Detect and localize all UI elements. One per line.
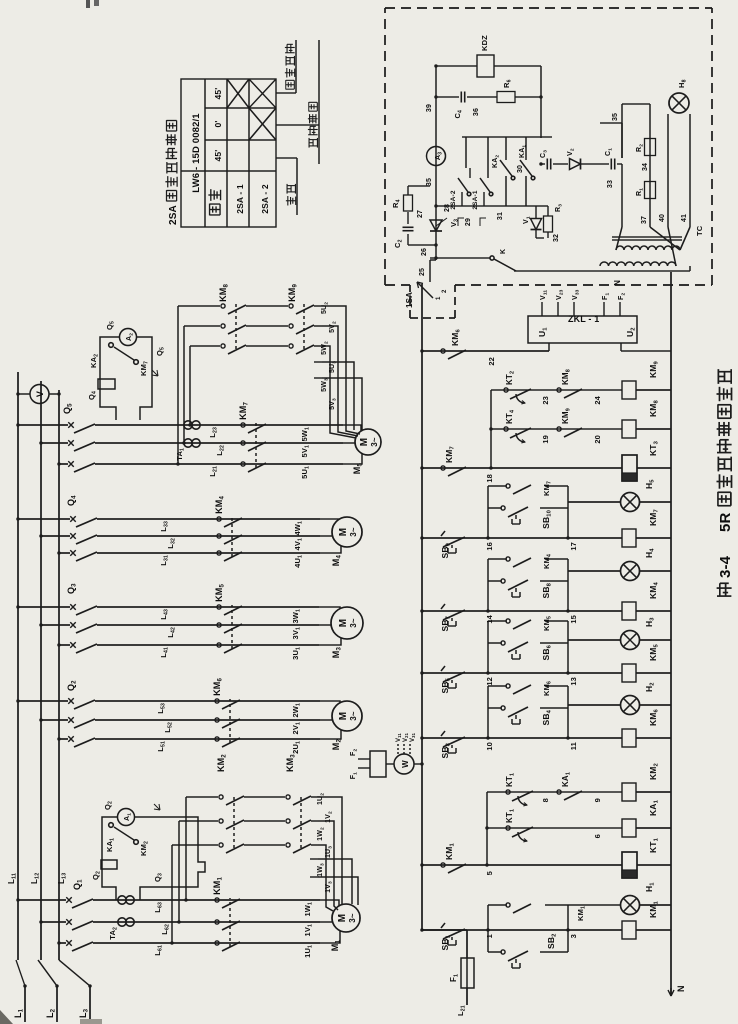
svg-text:35: 35 <box>612 113 619 121</box>
ZKL terminals V11 V23 V33 F1 F2 <box>541 302 543 316</box>
contactor KM2 pole <box>219 795 244 805</box>
dashed notch for 1SA entry <box>409 285 411 318</box>
svg-text:LW6 - 15D 0082/1: LW6 - 15D 0082/1 <box>191 113 202 193</box>
wiring nest M5 speed to motor <box>322 346 356 438</box>
speed drop 2 M1 <box>179 820 218 822</box>
svg-text:KDZ: KDZ <box>480 35 489 51</box>
branch to KM8/KM9 rungs <box>490 390 492 468</box>
bottom rail N of control circuit <box>670 272 672 996</box>
svg-text:2SA - 2: 2SA - 2 <box>260 184 270 214</box>
svg-text:3-4: 3-4 <box>717 555 734 578</box>
coil KM6 <box>622 729 636 747</box>
svg-text:30: 30 <box>517 165 524 173</box>
timer coil KT1 <box>622 852 637 878</box>
svg-text:2SA-2: 2SA-2 <box>450 190 457 209</box>
wire to motor W <box>320 701 340 704</box>
contactor KM3 pole <box>286 795 311 805</box>
svg-text:M: M <box>338 712 349 720</box>
svg-text:31: 31 <box>497 212 504 220</box>
bus L13 <box>58 390 60 960</box>
svg-text:20: 20 <box>593 435 602 444</box>
terminal stubs F1 F2 <box>358 767 370 769</box>
wire phase drop 13 <box>18 899 66 901</box>
breaker 1 pole 3 <box>66 897 93 908</box>
N line in box <box>430 257 490 259</box>
coil KM1 <box>622 921 636 939</box>
contactor KM4 pole 2 <box>217 534 242 544</box>
start button SB4 <box>488 707 502 709</box>
rung KM9 <box>491 389 622 391</box>
wire to motor U <box>319 636 341 645</box>
start button SB6 <box>488 642 502 644</box>
motor 4 <box>332 517 362 547</box>
resistor R3 <box>544 216 553 232</box>
contactor KM8 pole <box>221 324 246 334</box>
transformer core <box>612 239 682 241</box>
R4 and C2 off V3 <box>408 244 436 246</box>
tie wires <box>487 905 489 952</box>
svg-text:22: 22 <box>487 357 496 366</box>
contactor KM5 pole 1 <box>217 643 242 653</box>
supply line L1 <box>24 986 26 1022</box>
svg-text:K: K <box>500 249 507 254</box>
callout stop <box>276 157 297 159</box>
rung KM2 <box>487 791 622 793</box>
contactor KM9 pole <box>289 344 314 354</box>
tie wires of start/seal branch <box>487 486 489 538</box>
wire phase drop 42 <box>41 535 70 537</box>
svg-text:2SA: 2SA <box>168 205 179 225</box>
svg-text:3~: 3~ <box>348 913 357 923</box>
svg-text:12: 12 <box>485 677 494 686</box>
svg-text:25: 25 <box>419 268 426 276</box>
fuse F1 <box>461 958 474 988</box>
contactor KM1 pole 2 <box>215 920 240 930</box>
contact KA1 <box>557 790 582 800</box>
svg-text:27: 27 <box>417 210 424 218</box>
contactor KM2 pole <box>219 819 244 829</box>
wire to motor V <box>319 624 334 626</box>
winding connection stubs <box>616 227 622 250</box>
ammeter A3 <box>427 147 446 166</box>
2SA-1 / 2SA-2 / KA contacts network <box>436 205 462 207</box>
wire to motor W <box>343 425 361 432</box>
contactor KM6 pole 1 <box>215 737 240 747</box>
svg-text:11: 11 <box>569 742 578 750</box>
coil box KM7 aux <box>98 379 115 389</box>
wire phase drop 52 <box>41 442 68 444</box>
contactor KM1 pole 1 <box>215 941 240 951</box>
lamp rung H1 <box>568 904 621 906</box>
breaker 3 pole 3 <box>70 604 97 615</box>
page edge artifact <box>80 1019 102 1024</box>
svg-text:1: 1 <box>485 934 494 938</box>
lamp rung H2 <box>568 704 621 706</box>
table: contact table of controller 2SA <box>181 79 276 227</box>
seal-in contact KM6 <box>488 685 507 687</box>
coil KM2 <box>622 783 636 801</box>
svg-text:45': 45' <box>213 88 223 100</box>
wire phase drop 51 <box>59 463 68 465</box>
contactor KM4 pole 1 <box>217 551 242 561</box>
wire phase drop 33 <box>18 606 70 608</box>
motor 1 <box>332 904 360 932</box>
N arrow <box>668 988 674 996</box>
resistor loop R1 R2 (wires y=622/y=650) <box>621 164 623 227</box>
contactor KM1 pole 3 <box>215 898 240 908</box>
svg-text:19: 19 <box>541 435 550 444</box>
motor 2 <box>332 701 362 731</box>
wire phase drop 41 <box>59 552 70 554</box>
contact KA2 <box>484 205 506 207</box>
breaker 5 pole 2 <box>68 440 95 451</box>
changeover switch 1SA <box>417 282 433 298</box>
wire phase drop 43 <box>18 518 70 520</box>
link wires to speed contactors M5 <box>177 306 179 464</box>
rectifier box <box>370 751 386 777</box>
svg-text:2SA-1: 2SA-1 <box>472 190 479 209</box>
diode V2 <box>570 159 581 170</box>
contactor KM8 pole <box>221 304 246 314</box>
coil KA1 <box>622 819 636 837</box>
svg-text:W: W <box>401 760 410 768</box>
contactor KM7 pole 1 <box>241 462 266 472</box>
wire to motor V <box>320 719 335 721</box>
coil KM9 <box>622 381 636 399</box>
lamp H5 <box>621 493 640 512</box>
svg-text:10: 10 <box>485 742 494 751</box>
wire y=618 to node 35 <box>617 123 619 164</box>
contact KA1 aux <box>114 827 134 840</box>
timer coil KT3 <box>622 455 637 481</box>
rung x=413 <box>422 610 622 612</box>
contactor KM5 pole 2 <box>217 623 242 633</box>
callout auto feed <box>276 124 319 126</box>
svg-text:6: 6 <box>593 834 602 838</box>
contact 2SA-1 <box>483 192 485 206</box>
motor 5 <box>355 429 381 455</box>
contactor KM9 pole <box>289 324 314 334</box>
signal lamp H8 <box>669 93 689 113</box>
resistor R1 <box>645 182 656 199</box>
svg-text:35: 35 <box>426 178 433 186</box>
dashed enclosure box <box>384 8 386 285</box>
wire x=887 <box>462 136 552 138</box>
speed drop 2 M5 <box>184 325 220 327</box>
breaker 4 pole 3 <box>70 516 97 527</box>
stop button SB3 <box>441 731 465 753</box>
rung x=486 <box>422 537 622 539</box>
svg-text:M: M <box>337 914 348 922</box>
rung KA1 <box>487 827 622 829</box>
table row labels <box>210 204 221 216</box>
wire phase drop 12 <box>41 921 66 923</box>
lamp H1 <box>621 896 640 915</box>
wire phase drop 21 <box>59 738 68 740</box>
lamp H3 <box>621 631 640 650</box>
seal-in contact KM4 <box>488 558 507 560</box>
coil box KM2 aux <box>101 860 117 869</box>
speed drop 1 M5 <box>190 345 220 347</box>
contact KA1 <box>506 205 526 207</box>
svg-text:9: 9 <box>593 798 602 802</box>
svg-text:M: M <box>359 438 370 446</box>
wire to motor U <box>320 544 341 553</box>
svg-text:N: N <box>613 280 622 286</box>
svg-text:3~: 3~ <box>349 527 358 537</box>
wire to motor W <box>320 900 339 907</box>
breaker 4 pole 2 <box>70 533 97 544</box>
wire up to top rail <box>422 929 467 931</box>
seal contact KM1 <box>488 904 507 906</box>
stop button SB9 <box>441 531 465 553</box>
resistor R6 <box>497 92 515 103</box>
top rail of control circuit <box>421 284 423 930</box>
contact 2SA-2 <box>458 178 468 192</box>
svg-text:41: 41 <box>681 214 688 222</box>
contactor KM4 pole 3 <box>217 517 242 527</box>
breaker 3 pole 1 <box>70 642 97 653</box>
wire phase drop 23 <box>18 700 68 702</box>
aux relay circuit M5 (KA2/A2) <box>100 337 120 420</box>
stop button SB5 <box>441 666 465 688</box>
wire to motor V <box>320 921 335 923</box>
svg-text:36: 36 <box>473 108 480 116</box>
coil KM4 <box>622 602 636 620</box>
breaker 3 pole 2 <box>70 622 97 633</box>
svg-text:17: 17 <box>569 542 578 551</box>
voltmeter V <box>18 393 30 395</box>
lamp wires joining TC <box>668 227 676 266</box>
contact K on N line <box>490 256 494 260</box>
svg-text:34: 34 <box>642 163 649 171</box>
motor 3 <box>331 607 363 639</box>
start button SB8 <box>488 580 502 582</box>
rung KT3: KM7 aux <box>422 467 622 469</box>
seal-in contact KM5 <box>488 620 507 622</box>
svg-text:2: 2 <box>442 289 448 293</box>
contactor KM6 pole 3 <box>215 699 240 709</box>
breaker 2 pole 3 <box>68 698 95 709</box>
page corner artifact <box>0 1010 13 1024</box>
table X marks <box>227 79 249 108</box>
svg-text:40: 40 <box>659 214 666 222</box>
rung x=94 SB1/SB2 <box>422 929 622 931</box>
meter circle kW <box>394 754 414 774</box>
rung KM8 <box>491 428 622 430</box>
bus L11 <box>17 372 19 960</box>
wire phase drop 53 <box>18 424 68 426</box>
start button SB2 <box>488 951 502 953</box>
main wire through box y=436 <box>429 260 431 282</box>
wire to motor U <box>320 728 341 739</box>
lamp rung H4 <box>568 570 621 572</box>
rung to ZKL U1: contact KM6 <box>422 350 549 352</box>
tie wires of start/seal branch <box>487 686 489 738</box>
svg-text:26: 26 <box>421 248 428 256</box>
seal-in contact KM7 <box>488 485 507 487</box>
svg-text:V31: V31 <box>410 732 416 742</box>
breaker 2 pole 1 <box>68 736 95 747</box>
resistor R4 <box>404 195 413 211</box>
svg-text:3~: 3~ <box>349 711 358 721</box>
knife switch QS blades <box>16 960 25 986</box>
contact KM8 <box>557 388 582 398</box>
wire to motor W <box>319 607 340 610</box>
svg-text:1: 1 <box>436 296 442 300</box>
wire phase drop 11 <box>59 942 66 944</box>
contactor KM3 pole <box>286 843 311 853</box>
snubber C4/R6 on x=927 <box>436 96 459 98</box>
speed drop 1 M1 <box>172 844 218 846</box>
svg-text:16: 16 <box>485 542 494 551</box>
svg-text:TC: TC <box>695 225 704 236</box>
wire to motor U <box>320 929 340 943</box>
contactor KM5 pole 3 <box>217 605 242 615</box>
tie wires of start/seal branch <box>487 559 489 611</box>
svg-text:2SA - 1: 2SA - 1 <box>235 184 245 214</box>
svg-text:8: 8 <box>541 798 550 802</box>
figure caption <box>717 583 732 596</box>
coil KM8 <box>622 420 636 438</box>
contact KM9 interlock <box>557 427 582 437</box>
svg-text:ZKL - 1: ZKL - 1 <box>568 314 599 324</box>
arrow mark <box>154 804 160 810</box>
rung KT1: KM1 aux contact <box>422 864 622 866</box>
link wires to speed contactors M1 <box>171 845 173 943</box>
svg-text:V11: V11 <box>396 733 402 742</box>
bottom link wire y=541 <box>540 66 542 138</box>
lamp H2 <box>621 696 640 715</box>
V1 diode / R3 <box>526 205 536 207</box>
lamp rung H5 <box>568 501 621 503</box>
lamp branch wires <box>667 114 669 227</box>
capacitor C4 <box>461 92 464 103</box>
bus L12 <box>40 381 42 960</box>
breaker 4 pole 1 <box>70 550 97 561</box>
current transformer TA2 <box>118 918 134 926</box>
C3/V2/C1 chain on x=860 <box>541 163 545 165</box>
contactor KM8 pole <box>221 344 246 354</box>
svg-text:39: 39 <box>426 104 433 112</box>
contactor KM7 pole 3 <box>241 423 266 433</box>
svg-text:14: 14 <box>485 614 494 623</box>
breaker 5 pole 3 <box>68 422 95 433</box>
breaker 5 pole 1 <box>68 461 95 472</box>
rung x=286 <box>422 737 622 739</box>
supply line L3 <box>89 986 91 1022</box>
svg-text:29: 29 <box>465 218 472 226</box>
svg-text:15: 15 <box>569 615 578 624</box>
svg-text:3~: 3~ <box>349 618 358 628</box>
svg-text:M: M <box>338 528 349 536</box>
contactor KM2 pole <box>219 843 244 853</box>
wire phase drop 31 <box>59 644 70 646</box>
svg-text:V: V <box>35 391 45 397</box>
wiring nest M1 speed to motor <box>318 845 333 911</box>
stop button SB1 <box>441 923 465 945</box>
svg-text:1SA: 1SA <box>405 292 414 308</box>
callout manual feed <box>276 92 296 94</box>
capacitor C1 <box>611 159 614 170</box>
voltage tap stubs V11 V21 V31 <box>397 744 399 754</box>
wire phase drop 32 <box>41 624 70 626</box>
svg-text:18: 18 <box>485 474 494 483</box>
lamp H4 <box>621 562 640 581</box>
tie wires of start/seal branch <box>487 621 489 673</box>
speed drop 3 M1 <box>186 796 218 798</box>
lamp rung H3 <box>568 639 621 641</box>
breaker 2 pole 2 <box>68 717 95 728</box>
transformer TC windings <box>616 246 680 250</box>
contact KA2 aux <box>114 347 134 360</box>
svg-text:5: 5 <box>485 871 494 875</box>
contactor KM6 pole 2 <box>215 718 240 728</box>
svg-text:3: 3 <box>569 934 578 938</box>
svg-text:N: N <box>676 985 686 992</box>
speed drop 3 M5 <box>178 305 220 307</box>
stop button SB7 <box>441 604 465 626</box>
svg-text:32: 32 <box>553 234 560 242</box>
contactor KM3 pole <box>286 819 311 829</box>
svg-text:M: M <box>338 619 349 627</box>
relay coil KDZ on x=958 <box>436 65 477 67</box>
control feed: wire L21 <box>466 988 468 1005</box>
aux relay circuit M1 (KA1/A1) <box>102 817 118 900</box>
current transformer TA1 <box>184 439 200 447</box>
contactor KM7 pole 2 <box>241 441 266 451</box>
svg-text:0': 0' <box>213 120 223 127</box>
capacitor C2 <box>403 227 414 230</box>
svg-text:37: 37 <box>641 216 648 224</box>
supply line L2 <box>56 986 58 1022</box>
svg-text:5R: 5R <box>717 513 734 532</box>
ZKL U2 return wire <box>621 350 671 352</box>
coil KM5 <box>622 664 636 682</box>
svg-text:3~: 3~ <box>370 437 379 447</box>
start button SB10 <box>488 507 502 509</box>
wire to motor U <box>343 452 362 464</box>
coil KM7 <box>622 529 636 547</box>
svg-text:33: 33 <box>607 180 614 188</box>
resistor R2 <box>645 139 656 156</box>
svg-text:23: 23 <box>541 396 550 405</box>
svg-text:24: 24 <box>593 395 602 404</box>
automatic feed controller ZKL-1 box <box>528 316 637 343</box>
wire phase drop 22 <box>41 719 68 721</box>
thyristor V3 <box>430 218 447 231</box>
wire to motor V <box>343 442 358 444</box>
svg-text:13: 13 <box>569 677 578 686</box>
branch wire to KA1/KM2 rungs <box>486 792 488 865</box>
svg-text:45': 45' <box>213 150 223 162</box>
contactor KM9 pole <box>289 304 314 314</box>
wire to motor V <box>320 535 335 537</box>
svg-text:V21: V21 <box>403 732 409 742</box>
wire to motor W <box>320 519 340 520</box>
rung x=351 <box>422 672 622 674</box>
breaker 1 pole 1 <box>66 940 93 951</box>
bracket marks of cam switch <box>458 218 486 226</box>
breaker 1 pole 2 <box>66 919 93 930</box>
